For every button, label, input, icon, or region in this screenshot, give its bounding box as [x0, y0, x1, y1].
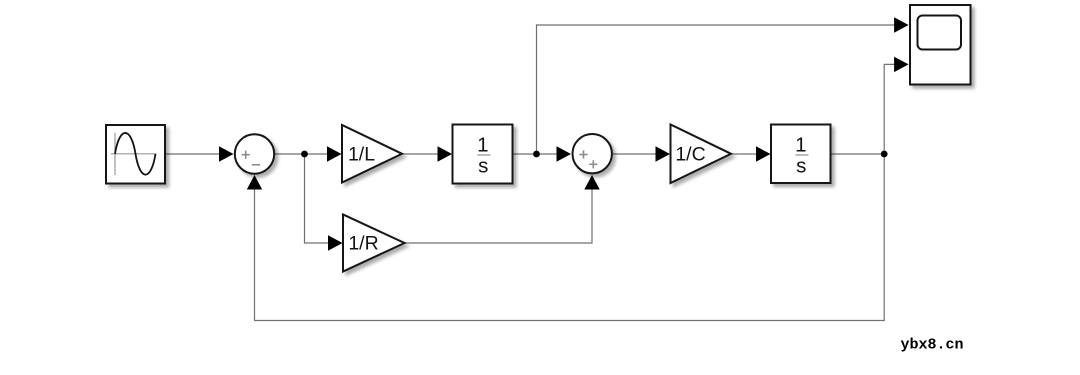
svg-text:1: 1 — [795, 134, 806, 157]
svg-text:s: s — [796, 154, 806, 177]
svg-text:ybx8.cn: ybx8.cn — [901, 337, 964, 354]
svg-text:1/C: 1/C — [675, 144, 705, 166]
svg-text:1/L: 1/L — [348, 144, 375, 166]
svg-text:1/R: 1/R — [348, 233, 378, 255]
svg-text:1: 1 — [477, 134, 488, 157]
svg-text:s: s — [478, 154, 488, 177]
